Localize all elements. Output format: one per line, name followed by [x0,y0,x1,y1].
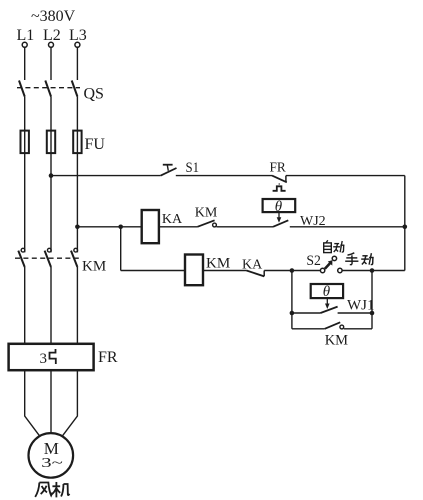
svg-text:FU: FU [85,136,106,153]
wire L1 KM to FR [24,267,26,344]
svg-text:KA: KA [162,212,183,227]
relay coil KA [142,210,159,243]
wire L3 KM to FR [76,267,78,344]
selector S2 right contact [338,268,342,272]
KA contact blade [247,271,265,277]
control line 2: wire L3 to KA coil [77,226,141,228]
switch QS pole 2 blade [45,81,51,97]
svg-text:KM: KM [82,258,106,274]
right rail [404,176,406,271]
fuse FU 3 [73,131,81,154]
switch QS pole 1 blade [19,81,25,97]
svg-text:L2: L2 [43,27,61,44]
motor M [29,433,74,478]
control line 5: KM aux bottom wire [292,328,325,330]
svg-text:θ: θ [323,284,331,300]
wire FR to motor 2 [50,370,52,434]
wire L2 top [50,47,52,80]
node WJ1 right [370,311,375,316]
node branch down [118,225,123,230]
FR NC contact blade [272,176,287,183]
WJ1 contact blade [321,307,338,313]
switch S1 actuator [167,165,168,171]
S2 blade arrow [325,263,330,269]
wire L2 KM to FR [50,267,52,344]
wire L1 QS to FU [24,97,26,253]
node S2 right [370,268,375,273]
svg-text:3~: 3~ [41,456,63,471]
wire KM contact to WJ2 contact [216,226,273,228]
svg-text:L3: L3 [69,27,87,44]
wire L1 top [24,47,26,80]
node WJ1 left [290,311,295,316]
label 自动 (auto) [324,240,345,252]
switch S1 blade [161,168,177,176]
node tap L3 control [75,225,80,230]
wire FR to motor 1 [25,370,41,438]
terminal L3 [75,42,80,47]
control line 1: wire L2 to S1 [51,175,161,177]
svg-text:KM: KM [206,256,230,272]
wire KA coil to KM contact [159,226,198,228]
switch QS pole 3 blade [72,81,78,97]
wire S2 to node right [342,270,405,272]
FR trip symbol [278,183,280,186]
KM linkage dashed line [15,257,79,259]
svg-text:KA: KA [242,257,263,272]
control line 4: wire to WJ1 contact [292,312,321,314]
svg-text:S2: S2 [306,253,321,269]
svg-text:S1: S1 [186,160,200,176]
wire FR contact to right rail [286,175,405,177]
thermal relay FR heater box [9,344,94,370]
wire FR to motor 3 [61,370,77,438]
temperature relay WJ1 sensor box [311,284,343,298]
wire KM coil to KA contact [203,270,247,272]
fuse FU 2 [47,131,55,154]
KM NO contact blade [197,220,214,227]
contactor coil KM [185,255,203,286]
svg-text:~380V: ~380V [31,8,76,25]
node right rail WJ2 [403,225,408,230]
wire KA contact to node [264,270,292,272]
QS linkage dashed line [17,87,80,89]
contactor KM pole 1 [21,248,25,252]
svg-text:FR: FR [98,349,118,366]
node tap L2 control [49,173,54,178]
selector S2 pivot contact [332,256,336,260]
svg-text:KM: KM [325,333,348,349]
left inner rail [291,271,293,329]
fuse FU 1 [21,131,29,154]
label 风机 (fan) [35,482,69,497]
wire KM aux to right [344,328,372,330]
label 手动 (manual) [345,253,374,265]
WJ1 actuating arrow [326,298,328,304]
svg-text:3: 3 [40,351,48,367]
svg-text:WJ1: WJ1 [347,298,375,314]
FR heater element symbol [50,349,56,364]
svg-text:QS: QS [84,86,104,103]
svg-text:KM: KM [195,206,218,221]
control line 3: wire to KM coil [121,270,185,272]
svg-text:FR: FR [270,160,287,175]
wire WJ2 contact to right rail [290,226,405,228]
wire S1 to FR contact [176,175,272,177]
wire WJ1 to right [338,312,372,314]
wire L3 QS to FU [76,97,78,253]
branch wire down to KM coil line [120,227,122,271]
node S2 left [290,268,295,273]
wire L2 QS to FU [50,97,52,253]
terminal L2 [49,42,54,47]
contactor KM pole 3 [74,248,78,252]
right inner rail [371,271,373,329]
WJ2 actuating arrow [278,212,280,218]
WJ2 contact blade [273,220,288,227]
temperature relay WJ2 sensor box [263,199,296,212]
wire node to S2 [292,270,321,272]
selector S2 left contact [320,268,324,272]
contactor KM pole 2 [47,248,51,252]
KM aux NO contact blade [325,322,341,329]
wire L3 top [76,47,78,80]
terminal L1 [22,42,27,47]
svg-text:L1: L1 [17,27,35,44]
